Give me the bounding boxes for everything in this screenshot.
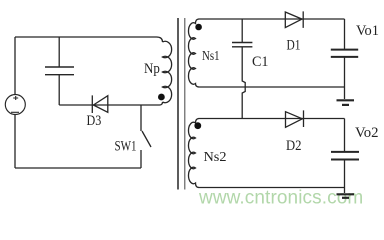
svg-text:D2: D2 [286,138,302,154]
diode D2 [286,110,304,127]
svg-text:Ns2: Ns2 [204,150,227,165]
secondary winding Ns2 [188,119,199,188]
source V1 [5,95,25,115]
source plus mark [13,96,18,100]
wire bottom-left horizontal [15,167,141,169]
svg-text:Vo2: Vo2 [355,125,379,141]
svg-text:www.cntronics.com: www.cntronics.com [198,188,363,209]
capacitor Vo1 plates [331,50,358,57]
wire Ns2 top rail [199,118,345,120]
svg-text:SW1: SW1 [115,139,137,155]
capacitor C1 lower lead with hop [242,47,245,119]
svg-text:D3: D3 [87,113,102,129]
capacitor C1 upper lead [241,19,243,43]
wire Vo1 branch down [344,19,346,50]
source minus mark [11,111,19,113]
wire clamp horizontal [59,102,162,105]
polarity dot Ns1 [195,24,202,31]
svg-text:D1: D1 [287,38,301,54]
polarity dot Ns2 [194,122,201,129]
wire Vo2 branch down [344,119,346,152]
svg-text:Np: Np [144,61,160,77]
secondary winding Ns1 [188,19,199,87]
primary winding Np [163,41,172,102]
switch SW1 [141,105,151,168]
ground Vo2 [344,188,346,194]
core line left [177,18,179,190]
core line right [184,18,186,190]
wire left vertical upper [14,37,16,95]
diode D3 [92,95,108,113]
capacitor Vo2 lower lead [344,160,346,188]
capacitor Vo1 lower lead [344,57,346,87]
wire Ns1 top rail [199,18,345,20]
capacitor C1 plates [232,43,252,47]
ground Vo1 [344,87,346,99]
capacitor snubber plates [45,67,74,75]
wire left vertical lower [14,115,16,169]
svg-text:C1: C1 [252,54,269,70]
wire Ns1 bottom rail [199,86,345,88]
svg-text:Vo1: Vo1 [356,23,379,39]
diode D1 [285,11,303,28]
wire Ns2 bottom rail [199,187,345,189]
wire top-left horizontal [15,37,163,42]
capacitor snubber upper lead [58,37,60,67]
svg-text:Ns1: Ns1 [202,49,220,64]
capacitor snubber lower lead [58,75,60,105]
capacitor Vo2 plates [331,152,359,160]
polarity dot Np [158,94,165,101]
